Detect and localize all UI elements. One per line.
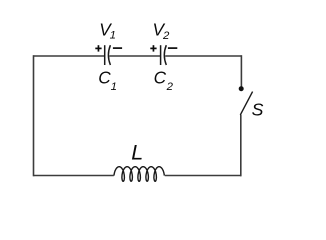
wire: top-left segment from left corner to C1 plus plate — [34, 55, 105, 57]
wire: segment between C1 and C2 — [109, 55, 160, 57]
switch node dot — [239, 86, 244, 91]
svg-text:1: 1 — [110, 30, 116, 42]
capacitor C2 — [161, 45, 167, 65]
wire: left vertical side of loop — [33, 55, 35, 176]
inductor L coil — [114, 167, 164, 182]
plus sign of C2 — [150, 45, 156, 51]
minus sign of C2 — [168, 47, 177, 49]
svg-text:C: C — [98, 68, 111, 88]
svg-text:2: 2 — [162, 30, 170, 42]
svg-text:L: L — [131, 140, 143, 164]
wire: top-right segment from C2 to top-right corner — [165, 55, 241, 57]
wire: bottom-left segment from left corner to inductor — [34, 175, 114, 177]
svg-text:C: C — [154, 68, 167, 88]
plus sign of C1 — [95, 45, 101, 51]
minus sign of C1 — [113, 47, 122, 49]
capacitor C1 — [105, 45, 111, 65]
wire: bottom-right segment from inductor to bottom-right corner — [165, 175, 242, 177]
switch S blade — [240, 92, 252, 115]
svg-text:2: 2 — [166, 81, 174, 93]
wire: right vertical segment from top-right corner down to switch node — [240, 55, 242, 86]
svg-text:1: 1 — [111, 81, 117, 93]
wire: right vertical segment from switch blade down to bottom-right corner — [240, 115, 242, 177]
svg-text:S: S — [252, 100, 264, 120]
